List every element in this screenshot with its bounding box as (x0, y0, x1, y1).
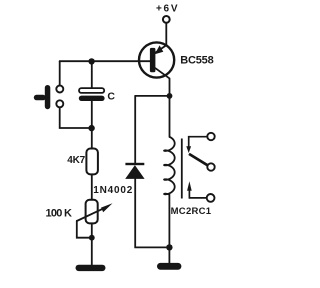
svg-text:+6V: +6V (156, 3, 178, 14)
svg-text:MC2RC1: MC2RC1 (171, 206, 212, 217)
svg-text:BC558: BC558 (180, 54, 214, 66)
svg-text:100 K: 100 K (46, 208, 73, 220)
svg-text:4K7: 4K7 (67, 155, 85, 166)
svg-text:C: C (107, 90, 115, 102)
svg-text:1N4002: 1N4002 (93, 185, 132, 196)
